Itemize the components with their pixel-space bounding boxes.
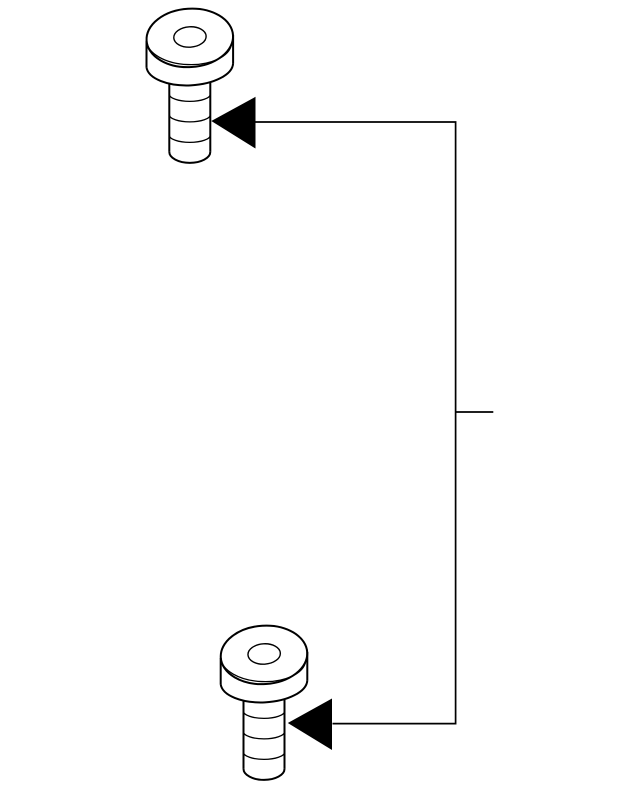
tick mark on leader line (callout stub)	[456, 411, 494, 413]
arrow A1 pointing at top bolt	[211, 97, 255, 149]
leader line from top arrow down right side to bottom arrow	[255, 122, 456, 724]
bolt B2 (bottom socket-head bolt)	[219, 623, 309, 780]
bolt B1 (top socket-head bolt)	[145, 6, 235, 163]
arrow A2 pointing at bottom bolt	[288, 699, 332, 751]
